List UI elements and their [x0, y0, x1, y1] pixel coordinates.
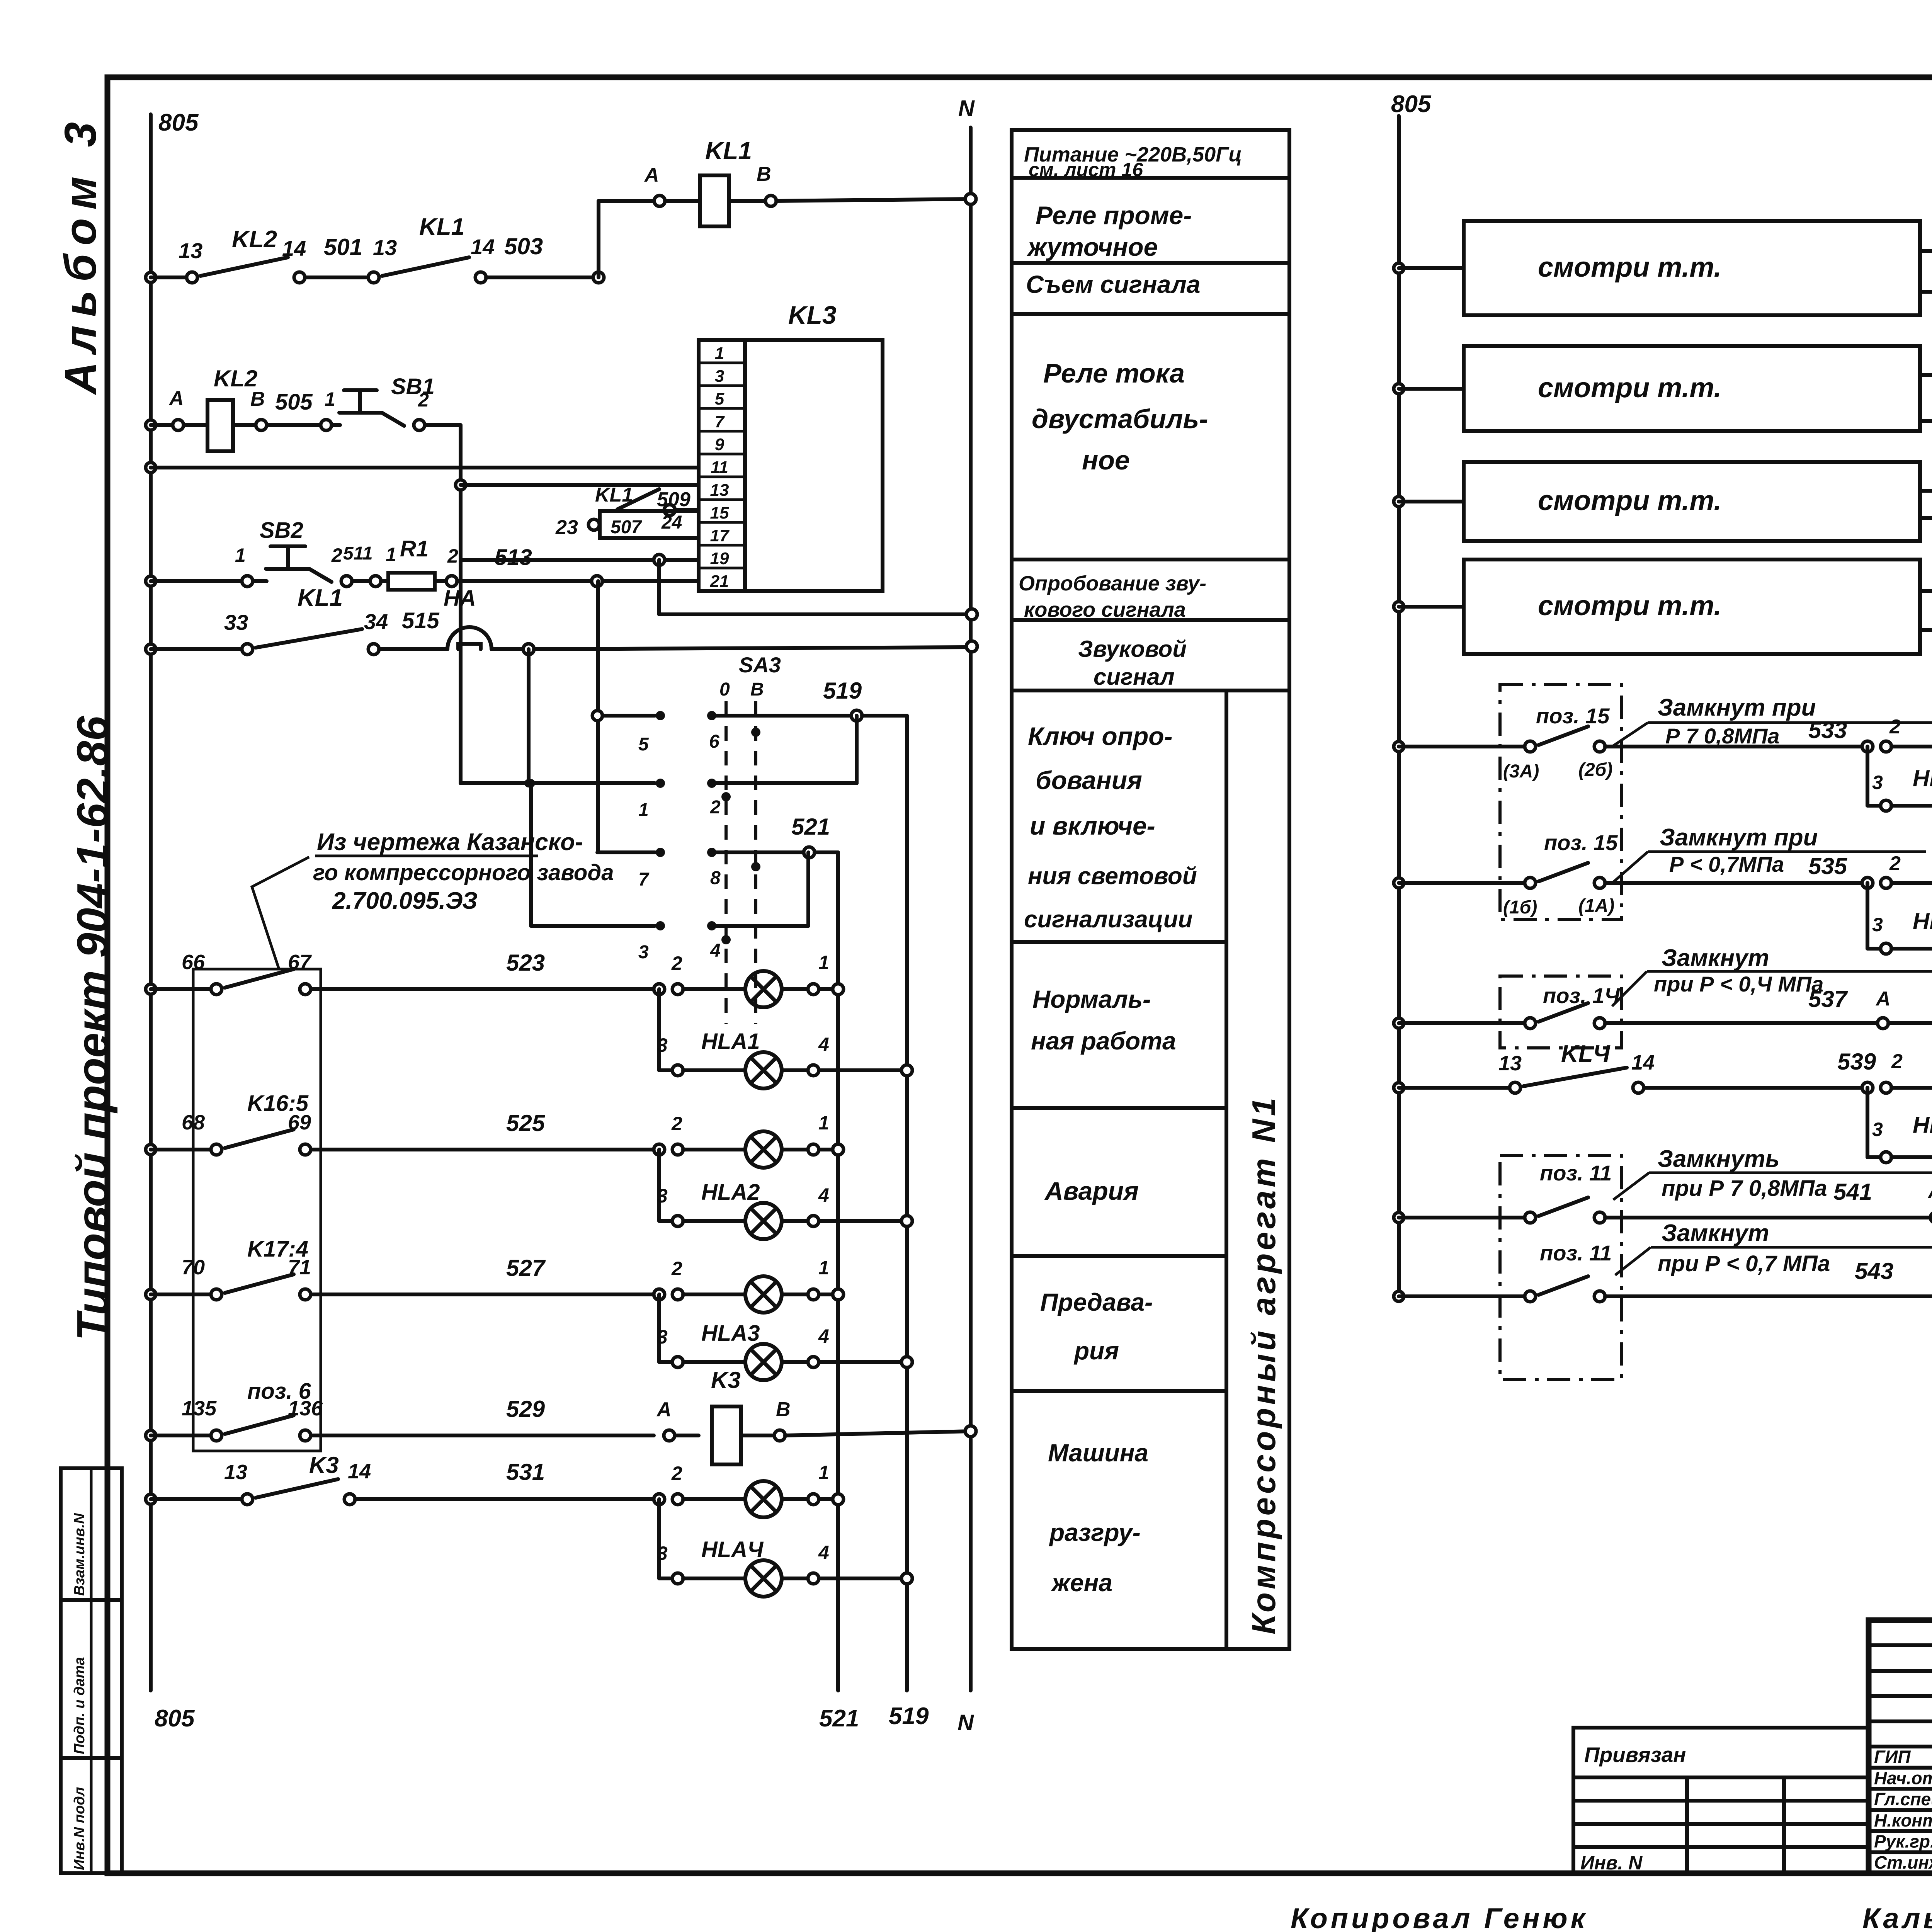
svg-text:3: 3: [638, 942, 649, 963]
svg-text:HLA2: HLA2: [701, 1180, 760, 1205]
svg-text:сигнал: сигнал: [1094, 664, 1175, 690]
svg-text:14: 14: [348, 1460, 371, 1483]
svg-text:ная работа: ная работа: [1031, 1027, 1176, 1055]
svg-text:519: 519: [823, 678, 862, 704]
svg-text:3: 3: [1872, 1119, 1883, 1140]
svg-text:9: 9: [715, 435, 724, 454]
svg-text:B: B: [776, 1398, 791, 1421]
svg-text:и включе-: и включе-: [1030, 811, 1155, 840]
svg-text:21: 21: [710, 572, 729, 591]
svg-text:HLA6: HLA6: [1913, 908, 1932, 934]
svg-text:13: 13: [1498, 1052, 1522, 1075]
svg-text:Кальку сверил Бутенко: Кальку сверил Бутенко: [1862, 1902, 1932, 1932]
svg-text:Нормаль-: Нормаль-: [1032, 985, 1151, 1013]
svg-text:2: 2: [1889, 716, 1901, 738]
svg-text:4: 4: [818, 1325, 829, 1347]
svg-text:Инв. N: Инв. N: [1580, 1852, 1643, 1874]
svg-text:Замкнуть: Замкнуть: [1658, 1146, 1779, 1172]
svg-text:13: 13: [710, 481, 729, 500]
svg-text:Подп. и дата: Подп. и дата: [71, 1657, 88, 1754]
svg-text:3: 3: [657, 1543, 668, 1564]
svg-text:при Р < 0,7 МПа: при Р < 0,7 МПа: [1658, 1251, 1830, 1276]
svg-text:B: B: [250, 388, 265, 410]
svg-text:1: 1: [818, 1257, 829, 1279]
svg-text:кового сигнала: кового сигнала: [1024, 598, 1186, 621]
svg-text:543: 543: [1855, 1258, 1893, 1284]
svg-text:6: 6: [709, 731, 719, 752]
svg-text:Компрессорный агрегат N1: Компрессорный агрегат N1: [1246, 1095, 1282, 1634]
svg-text:7: 7: [715, 412, 725, 431]
svg-text:поз. 11: поз. 11: [1540, 1161, 1612, 1185]
svg-text:13: 13: [373, 235, 397, 260]
svg-text:511: 511: [343, 543, 373, 564]
svg-text:3: 3: [657, 1034, 668, 1056]
svg-text:Привязан: Привязан: [1584, 1743, 1686, 1767]
svg-text:при Р 7 0,8МПа: при Р 7 0,8МПа: [1662, 1176, 1827, 1201]
svg-text:535: 535: [1808, 853, 1848, 879]
svg-text:A: A: [168, 387, 184, 410]
svg-text:A: A: [1927, 1180, 1932, 1202]
svg-text:4: 4: [818, 1184, 829, 1206]
svg-text:SB2: SB2: [260, 518, 303, 543]
svg-text:A: A: [644, 164, 659, 186]
svg-text:2: 2: [710, 797, 721, 818]
svg-text:Замкнут при: Замкнут при: [1658, 694, 1816, 721]
svg-text:1: 1: [325, 388, 335, 410]
svg-text:4: 4: [818, 1034, 829, 1055]
svg-text:KL3: KL3: [788, 301, 837, 329]
svg-text:(1А): (1А): [1578, 896, 1614, 916]
svg-text:69: 69: [288, 1111, 311, 1134]
svg-text:поз. 15: поз. 15: [1544, 830, 1618, 855]
svg-text:HLA5: HLA5: [1913, 765, 1932, 791]
svg-text:жуточное: жуточное: [1027, 233, 1158, 261]
svg-text:2: 2: [671, 1113, 682, 1134]
svg-text:3: 3: [1872, 914, 1883, 935]
svg-text:533: 533: [1808, 717, 1847, 743]
svg-text:1: 1: [818, 1462, 829, 1483]
svg-text:529: 529: [506, 1396, 545, 1422]
svg-text:ния световой: ния световой: [1028, 863, 1197, 889]
svg-text:разгру-: разгру-: [1049, 1519, 1141, 1546]
svg-text:2: 2: [418, 389, 429, 411]
svg-text:Взам.инв.N: Взам.инв.N: [71, 1513, 88, 1596]
svg-text:2: 2: [331, 544, 342, 566]
svg-text:521: 521: [791, 814, 830, 840]
svg-text:541: 541: [1833, 1179, 1872, 1205]
svg-text:смотри т.т.: смотри т.т.: [1538, 485, 1721, 516]
svg-text:805: 805: [1391, 91, 1432, 117]
svg-text:14: 14: [471, 235, 495, 259]
svg-text:Предава-: Предава-: [1040, 1288, 1153, 1316]
svg-text:смотри т.т.: смотри т.т.: [1538, 252, 1721, 283]
svg-text:539: 539: [1837, 1049, 1876, 1075]
svg-text:Съем сигнала: Съем сигнала: [1026, 270, 1200, 298]
svg-text:KL2: KL2: [214, 366, 257, 391]
svg-text:A: A: [656, 1398, 672, 1421]
svg-text:смотри т.т.: смотри т.т.: [1538, 372, 1721, 403]
svg-text:Реле проме-: Реле проме-: [1036, 201, 1192, 230]
svg-text:1: 1: [235, 544, 246, 566]
svg-text:N: N: [957, 1710, 974, 1735]
svg-text:двустабиль-: двустабиль-: [1032, 404, 1208, 434]
svg-text:KL1: KL1: [705, 137, 752, 165]
svg-text:KL1: KL1: [298, 585, 343, 611]
svg-text:Авария: Авария: [1044, 1177, 1139, 1205]
svg-text:68: 68: [182, 1111, 205, 1134]
svg-text:KLЧ: KLЧ: [1561, 1041, 1611, 1067]
svg-text:Ст.инж.: Ст.инж.: [1874, 1852, 1932, 1872]
svg-text:505: 505: [275, 389, 313, 415]
svg-text:Опробование зву-: Опробование зву-: [1019, 572, 1206, 595]
svg-text:K3: K3: [309, 1452, 339, 1478]
svg-text:при Р < 0,Ч МПа: при Р < 0,Ч МПа: [1654, 972, 1823, 996]
svg-text:N: N: [958, 96, 975, 121]
svg-text:SA3: SA3: [739, 653, 781, 677]
svg-text:1: 1: [386, 544, 396, 565]
svg-text:7: 7: [638, 869, 650, 890]
svg-text:2: 2: [1891, 1050, 1903, 1073]
svg-text:Типовой проект 904-1-62.86: Типовой проект 904-1-62.86: [68, 716, 118, 1341]
svg-text:34: 34: [364, 609, 388, 634]
svg-text:0: 0: [719, 679, 730, 700]
svg-text:5: 5: [715, 389, 724, 408]
svg-text:3: 3: [715, 367, 724, 386]
svg-text:3: 3: [657, 1185, 668, 1207]
svg-text:HLAЧ: HLAЧ: [701, 1537, 764, 1562]
svg-text:3: 3: [657, 1326, 668, 1348]
svg-text:70: 70: [182, 1256, 205, 1279]
svg-text:(1б): (1б): [1503, 897, 1537, 918]
svg-text:R1: R1: [400, 536, 429, 561]
svg-text:рия: рия: [1073, 1337, 1119, 1365]
svg-text:4: 4: [818, 1542, 829, 1563]
svg-text:13: 13: [179, 238, 202, 263]
svg-text:Рук.гр.: Рук.гр.: [1874, 1832, 1932, 1852]
svg-text:2: 2: [671, 1258, 682, 1279]
svg-text:8: 8: [710, 868, 721, 888]
svg-text:136: 136: [288, 1397, 323, 1420]
svg-text:15: 15: [710, 503, 729, 522]
svg-text:24: 24: [661, 512, 682, 533]
svg-text:(2б): (2б): [1578, 760, 1612, 780]
svg-text:Нач.отд.: Нач.отд.: [1874, 1768, 1932, 1788]
svg-text:523: 523: [506, 950, 545, 976]
svg-text:3: 3: [1872, 772, 1883, 793]
svg-text:1: 1: [638, 800, 649, 820]
svg-text:805: 805: [158, 109, 199, 136]
svg-text:11: 11: [711, 458, 728, 477]
svg-text:Гл.спец.: Гл.спец.: [1874, 1789, 1932, 1809]
svg-text:Ключ опро-: Ключ опро-: [1028, 722, 1173, 750]
svg-text:B: B: [757, 163, 771, 185]
svg-text:527: 527: [506, 1255, 546, 1281]
svg-text:Замкнут: Замкнут: [1662, 945, 1769, 971]
svg-text:A: A: [1875, 988, 1891, 1010]
svg-text:23: 23: [555, 516, 578, 539]
svg-text:2: 2: [1889, 852, 1901, 875]
svg-text:HLA1: HLA1: [701, 1029, 760, 1054]
svg-text:Реле тока: Реле тока: [1043, 358, 1185, 388]
svg-text:805: 805: [155, 1705, 195, 1732]
svg-text:Машина: Машина: [1048, 1439, 1148, 1467]
svg-text:KL2: KL2: [232, 226, 277, 253]
svg-text:14: 14: [282, 236, 306, 260]
svg-text:5: 5: [638, 734, 649, 755]
svg-text:бования: бования: [1036, 766, 1142, 794]
svg-text:507: 507: [611, 517, 642, 537]
svg-text:Инв.N подл: Инв.N подл: [71, 1787, 88, 1870]
svg-text:HLA7: HLA7: [1913, 1112, 1932, 1138]
svg-text:531: 531: [506, 1459, 545, 1485]
svg-text:33: 33: [224, 610, 248, 634]
svg-text:1: 1: [818, 952, 829, 973]
svg-text:2: 2: [671, 952, 682, 974]
svg-text:Звуковой: Звуковой: [1078, 636, 1187, 662]
svg-text:519: 519: [889, 1703, 929, 1730]
svg-text:смотри т.т.: смотри т.т.: [1538, 590, 1721, 621]
svg-text:4: 4: [710, 940, 721, 961]
svg-text:1: 1: [715, 344, 724, 363]
svg-text:Н.контр.: Н.контр.: [1874, 1810, 1932, 1830]
svg-text:Замкнут при: Замкнут при: [1660, 824, 1818, 851]
svg-text:см. лист 16: см. лист 16: [1029, 159, 1143, 180]
svg-text:13: 13: [224, 1461, 247, 1484]
svg-text:(3А): (3А): [1503, 761, 1539, 782]
svg-text:поз. 11: поз. 11: [1540, 1241, 1612, 1265]
svg-text:K3: K3: [711, 1367, 741, 1393]
svg-text:2.700.095.ЭЗ: 2.700.095.ЭЗ: [332, 888, 478, 914]
svg-text:17: 17: [710, 526, 730, 545]
svg-text:KL1: KL1: [419, 214, 464, 240]
svg-text:2: 2: [671, 1463, 682, 1484]
svg-text:67: 67: [288, 951, 312, 974]
svg-text:Копировал Генюк: Копировал Генюк: [1291, 1902, 1588, 1932]
svg-text:501: 501: [324, 234, 362, 260]
svg-text:513: 513: [495, 545, 532, 570]
svg-text:Р 7 0,8МПа: Р 7 0,8МПа: [1665, 724, 1780, 748]
svg-text:525: 525: [506, 1110, 546, 1136]
svg-text:71: 71: [288, 1256, 311, 1279]
svg-text:жена: жена: [1051, 1569, 1112, 1597]
svg-text:Р < 0,7МПа: Р < 0,7МПа: [1669, 852, 1784, 876]
svg-text:Из чертежа Казанско-: Из чертежа Казанско-: [317, 829, 583, 855]
svg-text:ГИП: ГИП: [1874, 1747, 1911, 1767]
svg-text:поз. 1Ч: поз. 1Ч: [1543, 983, 1620, 1008]
svg-text:го компрессорного завода: го компрессорного завода: [313, 860, 614, 885]
svg-text:537: 537: [1808, 986, 1848, 1012]
svg-text:2: 2: [447, 545, 458, 567]
svg-text:поз. 15: поз. 15: [1536, 704, 1610, 728]
svg-text:HLA3: HLA3: [701, 1321, 760, 1346]
svg-text:B: B: [750, 679, 764, 700]
svg-text:Замкнут: Замкнут: [1662, 1220, 1769, 1247]
svg-text:503: 503: [504, 233, 543, 259]
svg-text:515: 515: [402, 608, 440, 633]
svg-text:135: 135: [182, 1397, 217, 1420]
svg-text:ное: ное: [1082, 445, 1130, 475]
svg-text:14: 14: [1631, 1051, 1655, 1074]
svg-text:Альбом 3: Альбом 3: [55, 114, 105, 395]
svg-text:19: 19: [710, 549, 729, 568]
svg-text:1: 1: [818, 1112, 829, 1134]
svg-text:521: 521: [819, 1705, 859, 1732]
svg-text:66: 66: [182, 951, 205, 974]
svg-text:сигнализации: сигнализации: [1024, 906, 1192, 933]
svg-text:HA: HA: [444, 586, 476, 611]
